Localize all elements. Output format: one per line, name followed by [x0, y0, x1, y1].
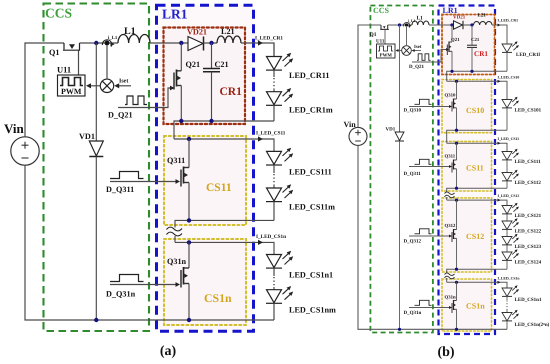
node VD1 tap (a): [94, 41, 98, 45]
diode VD1 (b): [395, 25, 404, 329]
wire LED_CR1l return (b): [506, 52, 508, 71]
svg-text:Iset: Iset: [414, 44, 422, 50]
wire CS12 bottom rail (b): [447, 269, 507, 272]
svg-text:D_Q31n: D_Q31n: [404, 310, 422, 316]
svg-text:Q31n: Q31n: [167, 257, 187, 266]
svg-text:LED_CS123: LED_CS123: [515, 244, 542, 250]
transistor Q21 (a): [174, 43, 181, 121]
multiplier (a): [100, 79, 113, 92]
wire LED_CS11m to return: [273, 202, 275, 221]
LED LED_CS1n2n (b): [502, 310, 519, 321]
transistor Q31n (a): [181, 242, 189, 320]
voltage source Vin (a): [11, 137, 39, 165]
wire CR1 bottom rail (a): [174, 121, 274, 139]
wire CS11 bottom rail (b): [447, 188, 507, 192]
svg-text:LED_CS1nm: LED_CS1nm: [289, 306, 336, 315]
wire gate D_Q31n (b): [409, 307, 450, 309]
svg-text:CR1: CR1: [220, 86, 243, 98]
svg-text:L1: L1: [124, 26, 136, 37]
transistor Q21 (b): [447, 25, 452, 71]
svg-text:Q310: Q310: [445, 93, 457, 99]
wire probe to multiplier (b): [406, 27, 408, 46]
svg-text:CS12: CS12: [466, 232, 484, 241]
node C21 tap (a): [209, 41, 213, 45]
svg-text:LED_CR11: LED_CR11: [289, 71, 330, 80]
svg-text:I_LED_CS1n: I_LED_CS1n: [256, 234, 286, 240]
wire probe to multiplier (a): [106, 46, 108, 80]
inductor L1 (a): [118, 35, 150, 44]
node Q21 source on rail: [179, 119, 183, 123]
svg-text:LED_CS111: LED_CS111: [289, 168, 332, 177]
switch Q1 (a): [63, 43, 80, 75]
svg-text:LED_CR1m: LED_CR1m: [289, 106, 333, 115]
LED LED_CS1n1 (b): [502, 285, 519, 296]
svg-text:(b): (b): [437, 345, 454, 359]
svg-text:L1: L1: [417, 16, 424, 22]
svg-text:I_LED_CS12: I_LED_CS12: [498, 194, 520, 198]
svg-text:I_LED_CR1: I_LED_CR1: [255, 36, 283, 42]
wire gate D_Q311 (b): [409, 166, 450, 168]
node VD1 bottom (b): [398, 328, 401, 331]
block LR1 box (b): [439, 6, 496, 335]
switch Q1 (b): [380, 25, 389, 44]
wire L1 to VD21 (a): [150, 42, 188, 44]
svg-text:PWM: PWM: [61, 87, 82, 96]
block CR1 box (a): [164, 28, 246, 125]
block CS1n box (b): [442, 279, 492, 331]
svg-text:I_LED_CS11: I_LED_CS11: [498, 137, 520, 141]
svg-text:CS1n: CS1n: [466, 302, 485, 311]
svg-text:Q21: Q21: [186, 60, 201, 69]
transistor Q311 (a): [181, 139, 189, 220]
LED LED_CS111 (a): [266, 148, 293, 165]
svg-text:I_LED_CS11: I_LED_CS11: [256, 131, 286, 137]
wire CS10 bottom rail (b): [447, 130, 507, 143]
inductor L21 (a): [217, 36, 241, 43]
svg-text:LED_CS112: LED_CS112: [515, 180, 542, 186]
wire L1 to VD21 (b): [429, 24, 454, 26]
svg-text:PWM: PWM: [380, 53, 393, 59]
svg-text:CS10: CS10: [466, 106, 484, 115]
inductor L21 (b): [474, 22, 492, 25]
capacitor C21 (a): [203, 43, 220, 121]
svg-text:D_Q311: D_Q311: [404, 171, 422, 177]
wire gate D_Q21 (b): [412, 50, 447, 63]
node VD1 on bottom rail: [94, 318, 98, 322]
arrow I_LED_CS11: [258, 136, 263, 141]
node Q21 drain tap (a): [179, 41, 183, 45]
wire elbow CS12-CS1n (b): [446, 278, 448, 282]
svg-text:I_LED_CS10: I_LED_CS10: [498, 75, 520, 79]
wire CS11 bottom rail (a): [175, 220, 274, 227]
waveform D_Q21: [125, 96, 147, 105]
waveform D_Q312 (b): [415, 229, 432, 234]
wire gate D_Q31n (a): [110, 284, 177, 286]
node Q311 drain tap: [187, 137, 191, 141]
svg-text:Q1: Q1: [49, 48, 59, 57]
wire dotted between CS11 LEDs: [273, 165, 275, 173]
block CCS box (b): [370, 6, 433, 333]
svg-text:LED_CS111: LED_CS111: [515, 159, 542, 165]
svg-text:CS1n: CS1n: [204, 291, 232, 305]
wire LED_CS1n2n return (b): [506, 321, 508, 329]
node Q31n source on bottom rail: [187, 318, 191, 322]
transistor Q31n (b): [452, 282, 457, 329]
wire LED_CS112 return (b): [506, 181, 508, 188]
svg-text:LED_CS124: LED_CS124: [515, 260, 542, 266]
node C21 bottom (b): [470, 70, 473, 73]
wire CS12 LED3-4 (b): [506, 245, 508, 252]
wire LED_CR1m to return: [273, 105, 275, 121]
LED LED_CR11 (a): [266, 53, 293, 70]
svg-text:D_Q311: D_Q311: [106, 185, 134, 194]
wire CS1n top rail (b): [447, 282, 507, 288]
arrow I_LED_CR1 (a): [258, 40, 263, 45]
wire Vin top to Q1 (a): [25, 43, 64, 137]
wire elbow CS11-CS12 (b): [446, 197, 448, 200]
wire LED_CS124 return (b): [506, 260, 508, 269]
block LR1 box (a): [157, 5, 254, 331]
block CS1n box (a): [164, 239, 246, 325]
wire LED_CS101 return (b): [506, 108, 508, 130]
wire gate D_Q312 (b): [409, 235, 450, 237]
svg-text:LED_CS1n1: LED_CS1n1: [289, 271, 333, 280]
wire VD21 to L21 (b): [463, 24, 474, 26]
svg-text:Vin: Vin: [4, 121, 25, 136]
wire VD21 to L21 (a): [204, 42, 218, 44]
wire dotted between CR1 LEDs: [273, 70, 275, 77]
wire gate D_Q21 (a): [118, 88, 171, 108]
diode VD21 (b): [454, 21, 464, 29]
wire bottom rail (a): [25, 165, 274, 320]
wire CS11 top rail (b): [447, 143, 507, 151]
svg-text:Q312: Q312: [445, 223, 457, 229]
transistor Q311 (b): [452, 143, 457, 188]
current probe i_L1 (a): [102, 40, 114, 47]
LED LED_CS1n1 (a): [266, 251, 293, 268]
wire elbow CS11 to CS1n (a): [174, 236, 176, 242]
transistor Q312 (b): [452, 200, 457, 269]
arrow I_LED_CS1n: [258, 240, 263, 245]
node Q31n source bottom (b): [455, 328, 458, 331]
svg-text:D_Q312: D_Q312: [404, 239, 422, 245]
block CCS box (a): [44, 4, 150, 332]
svg-text:LED_CS101: LED_CS101: [515, 108, 542, 114]
wire CR1 bottom rail (b): [447, 71, 507, 81]
transistor Q310 (b): [452, 81, 457, 130]
wire CS11 top rail (a): [174, 139, 274, 151]
block CR1 box (b): [442, 15, 495, 75]
svg-text:CR1: CR1: [474, 50, 488, 58]
svg-text:CS11: CS11: [466, 164, 484, 173]
LED LED_CS122 (b): [502, 218, 519, 229]
diode VD21 (a): [188, 37, 204, 51]
svg-text:CS11: CS11: [206, 182, 232, 194]
node C21 tap (b): [470, 23, 473, 26]
block LR1 fill (b): [439, 6, 496, 335]
node C21 bottom on rail: [209, 119, 213, 123]
wire Iset input (b): [412, 49, 421, 52]
LED LED_CS112 (b): [502, 170, 519, 181]
wire CS12 top rail (b): [447, 200, 507, 205]
block CS11 box (b): [442, 141, 492, 191]
svg-text:CCS: CCS: [45, 6, 72, 21]
wire CS12 LED1-2 (b): [506, 214, 508, 221]
voltage source Vin (b): [349, 127, 367, 145]
wire gate D_Q311 (a): [110, 181, 177, 183]
wire CS1n top rail (a): [175, 242, 274, 254]
node VD1 tap (b): [398, 23, 401, 26]
LED LED_CS11m (a): [266, 184, 293, 201]
svg-text:LED_CS122: LED_CS122: [515, 229, 542, 235]
svg-text:I_LED_CS1n: I_LED_CS1n: [498, 276, 521, 280]
LED LED_CS101 (b): [502, 97, 519, 108]
svg-text:Q21: Q21: [451, 37, 460, 43]
wire Iset input (a): [114, 83, 131, 88]
wire LED_CS1nm to bottom rail: [273, 303, 275, 320]
LED LED_CS123 (b): [502, 234, 519, 245]
block CS11 box (a): [164, 136, 246, 225]
svg-text:LED_CR1l: LED_CR1l: [516, 52, 541, 58]
svg-text:I_LED_CR1: I_LED_CR1: [498, 19, 519, 23]
LED LED_CS1nm (a): [266, 286, 293, 303]
svg-text:VD21: VD21: [453, 15, 466, 21]
node Q21 source (b): [450, 70, 453, 73]
wire L21 to LED_CR1 feed (a): [241, 43, 274, 57]
block LR1 fill: [157, 5, 254, 331]
svg-text:D_Q21: D_Q21: [108, 111, 133, 120]
wire Vin top rail (b): [358, 25, 381, 127]
wire bottom rail (b): [358, 145, 507, 329]
waveform D_Q311 (b): [415, 159, 432, 164]
waveform D_Q31n (b): [415, 300, 432, 305]
svg-text:Q311: Q311: [445, 154, 456, 160]
svg-text:VD21: VD21: [187, 28, 207, 37]
wire Q1 to L1 (a): [80, 42, 119, 44]
wire multiplier to PWM (b): [396, 49, 402, 52]
wire dotted between CS1n LEDs: [273, 268, 275, 276]
wire break squiggle (a): [167, 227, 183, 236]
wire break squiggle CS12-CS1n (b): [445, 273, 455, 279]
svg-text:CCS: CCS: [373, 6, 390, 15]
diode VD1 (a): [89, 43, 103, 320]
multiplier (b): [402, 46, 412, 56]
LED LED_CS121 (b): [502, 203, 519, 214]
svg-text:U11: U11: [57, 65, 71, 75]
LED LED_CR1m (a): [266, 88, 293, 105]
controller U11 PWM box (b): [377, 44, 396, 58]
block CS10 box (b): [442, 80, 492, 133]
capacitor C21 (b): [467, 25, 477, 71]
wire break squiggle CS11-CS12 (b): [445, 192, 455, 198]
svg-text:Q31n: Q31n: [445, 295, 457, 301]
wire CS10 top rail (b): [447, 81, 507, 99]
svg-text:LR1: LR1: [162, 7, 188, 22]
node Q31n drain tap: [187, 240, 191, 244]
wire Q1 to L1 (b): [388, 24, 412, 26]
svg-text:i_L1: i_L1: [108, 35, 118, 41]
current probe i_L1 (b): [403, 23, 411, 28]
wire between CS11 LEDs (b): [506, 160, 508, 173]
svg-text:LED_CS1n1: LED_CS1n1: [515, 297, 542, 303]
svg-text:D_Q31n: D_Q31n: [106, 290, 136, 299]
wire CS12 LED2-3 (b): [506, 229, 508, 236]
svg-text:(a): (a): [160, 344, 177, 359]
node Q21 drain tap (b): [450, 23, 453, 26]
controller U11 PWM box (a): [58, 75, 86, 96]
node Q311 source on rail: [187, 218, 191, 222]
svg-text:L21: L21: [221, 27, 235, 36]
svg-text:LED_CS1n(2ⁿn): LED_CS1n(2ⁿn): [515, 322, 550, 328]
wire multiplier to PWM (a): [86, 83, 100, 88]
LED LED_CR1l (b): [502, 41, 519, 52]
svg-text:Vin: Vin: [344, 120, 357, 129]
wire gate D_Q310 (b): [409, 106, 450, 108]
svg-text:C21: C21: [215, 60, 229, 69]
svg-text:Q311: Q311: [167, 156, 185, 165]
svg-text:C21: C21: [471, 37, 480, 43]
svg-text:Q1: Q1: [370, 32, 377, 38]
waveform D_Q21 (b): [417, 54, 431, 61]
svg-text:VD1: VD1: [79, 132, 95, 141]
waveform D_Q311: [110, 172, 144, 179]
LED string CR1 feed wire: [273, 43, 275, 57]
svg-text:VD1: VD1: [386, 127, 396, 133]
waveform D_Q310: [415, 99, 432, 104]
svg-text:Iset: Iset: [119, 79, 128, 85]
inductor L1 (b): [412, 21, 429, 25]
wire dotted between CS1n LEDs (b): [506, 296, 508, 300]
svg-text:D_Q21: D_Q21: [409, 64, 425, 70]
LED LED_CS111 (b): [502, 149, 519, 160]
svg-text:L21: L21: [478, 13, 487, 19]
svg-text:D_Q310: D_Q310: [404, 108, 422, 114]
LED LED_CS124 (b): [502, 249, 519, 260]
svg-text:LED_CS121: LED_CS121: [515, 213, 542, 219]
waveform D_Q31n: [110, 275, 144, 282]
svg-text:LED_CS11m: LED_CS11m: [289, 203, 335, 212]
svg-text:U11: U11: [376, 39, 385, 45]
block CS12 box (b): [442, 198, 492, 272]
wire L21 to LED feed (b): [492, 25, 507, 44]
